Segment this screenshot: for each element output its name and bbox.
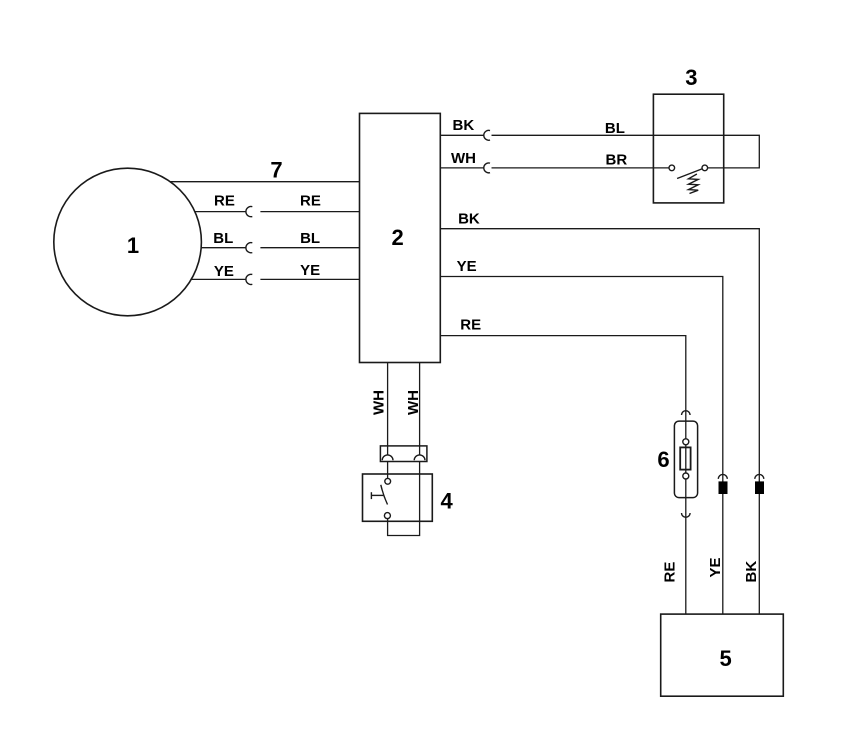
svg-text:RE: RE	[214, 193, 235, 210]
svg-text:BL: BL	[213, 230, 233, 247]
svg-text:BK: BK	[453, 117, 475, 134]
svg-text:YE: YE	[457, 258, 477, 275]
svg-text:YE: YE	[300, 262, 320, 279]
svg-text:1: 1	[127, 233, 139, 258]
svg-text:2: 2	[391, 225, 403, 250]
svg-text:WH: WH	[371, 390, 388, 415]
svg-text:BK: BK	[743, 561, 760, 583]
svg-text:YE: YE	[214, 263, 234, 280]
svg-text:5: 5	[719, 646, 731, 671]
svg-text:3: 3	[685, 65, 697, 90]
svg-text:WH: WH	[405, 390, 422, 415]
svg-text:BL: BL	[605, 120, 625, 137]
svg-text:RE: RE	[300, 193, 321, 210]
svg-text:BR: BR	[606, 151, 628, 168]
svg-text:4: 4	[440, 488, 453, 513]
svg-text:6: 6	[657, 447, 669, 472]
svg-text:BK: BK	[458, 211, 480, 228]
svg-text:YE: YE	[707, 557, 724, 577]
svg-text:RE: RE	[661, 562, 678, 583]
svg-text:RE: RE	[460, 317, 481, 334]
svg-text:BL: BL	[300, 230, 320, 247]
svg-text:WH: WH	[451, 150, 476, 167]
svg-text:7: 7	[270, 158, 282, 183]
